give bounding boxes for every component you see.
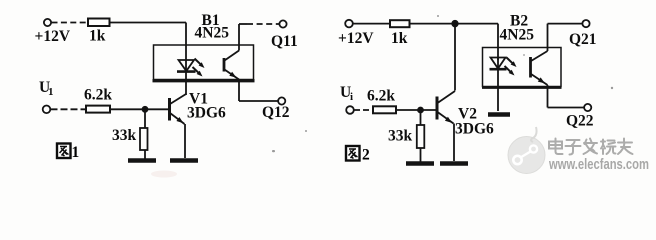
svg-text:3DG6: 3DG6 — [455, 121, 494, 138]
svg-text:Q12: Q12 — [262, 104, 290, 121]
svg-text:1k: 1k — [89, 28, 106, 45]
svg-text:+12V: +12V — [35, 28, 71, 45]
svg-text:4N25: 4N25 — [500, 27, 535, 44]
svg-text:1: 1 — [72, 144, 80, 161]
svg-text:4N25: 4N25 — [195, 25, 230, 42]
svg-text:3DG6: 3DG6 — [187, 105, 226, 122]
svg-text:33k: 33k — [388, 128, 413, 145]
svg-text:33k: 33k — [112, 127, 137, 144]
svg-text:+12V: +12V — [338, 30, 374, 47]
svg-text:1k: 1k — [391, 30, 408, 47]
svg-text:6.2k: 6.2k — [84, 87, 112, 104]
svg-text:Q21: Q21 — [569, 31, 597, 48]
svg-text:2: 2 — [362, 147, 370, 164]
svg-text:Q11: Q11 — [271, 33, 298, 50]
svg-text:www.elecfans.com: www.elecfans.com — [548, 156, 649, 173]
svg-text:i: i — [350, 91, 353, 103]
svg-text:1: 1 — [48, 86, 54, 98]
svg-text:6.2k: 6.2k — [367, 88, 395, 105]
svg-text:Q22: Q22 — [566, 113, 594, 130]
